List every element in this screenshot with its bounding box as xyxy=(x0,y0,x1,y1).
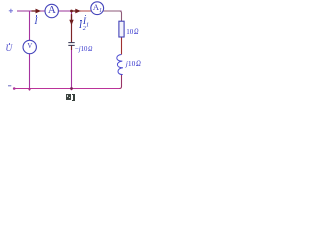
label A1 in ammeter A1 xyxy=(93,2,102,14)
label A in ammeter A xyxy=(48,4,56,16)
label voltage U with dot xyxy=(5,44,12,54)
voltmeter V circle xyxy=(23,40,36,53)
label current I with dot xyxy=(35,16,38,26)
label current I2 with dot xyxy=(79,20,86,32)
wire middle branch maroon part xyxy=(71,14,73,50)
wire segment red after I1 arrow xyxy=(80,10,91,12)
node junction bottom left xyxy=(28,88,30,90)
node bottom-left terminal dot xyxy=(13,87,16,90)
wire top horizontal xyxy=(17,10,122,12)
arrow current I2 on middle branch xyxy=(71,15,73,21)
minus terminal symbol xyxy=(8,85,11,87)
node junction bottom middle xyxy=(70,87,73,90)
node junction top middle xyxy=(70,10,73,13)
capacitor C plates xyxy=(68,43,74,46)
figure caption glyph xyxy=(66,94,72,101)
arrow current I1 on top wire xyxy=(72,10,76,12)
resistor R 10ohm box xyxy=(119,21,124,37)
wire top-right corner and right vertical to resistor xyxy=(103,11,121,21)
inductor L coil xyxy=(117,55,123,75)
wire left branch vertical xyxy=(29,11,31,91)
wire resistor to inductor xyxy=(121,37,123,55)
ammeter A circle xyxy=(45,4,58,17)
label V in voltmeter xyxy=(27,43,32,50)
ammeter A1 circle xyxy=(91,2,104,15)
value label j10 ohm inductor xyxy=(126,58,142,68)
wire middle branch vertical xyxy=(71,11,73,90)
label current I1 with dot xyxy=(83,16,89,29)
value label 10 ohm resistor xyxy=(126,27,139,36)
arrow current I on top wire xyxy=(32,10,36,12)
wire below inductor with bottom-right corner xyxy=(120,75,122,89)
wire bottom horizontal xyxy=(14,88,120,90)
value label -j10 ohm capacitor xyxy=(75,44,94,53)
plus terminal symbol xyxy=(9,9,13,13)
figure caption digit 3 xyxy=(72,94,75,95)
